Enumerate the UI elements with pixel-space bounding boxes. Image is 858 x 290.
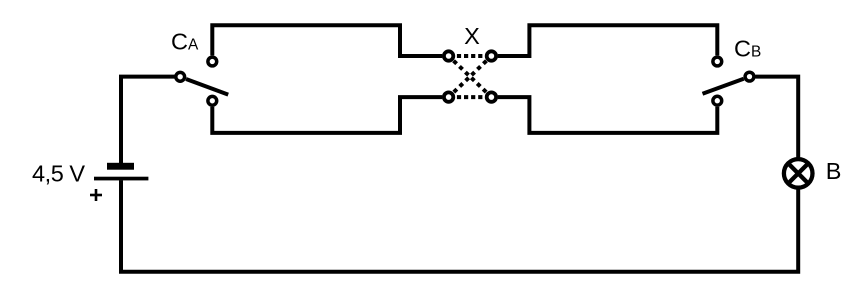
dashed link: crossover bottom horizontal xyxy=(449,95,492,99)
dashed link: crossover diagonal top-right to bottom-left xyxy=(449,56,492,97)
crossover terminal bottom-left xyxy=(444,92,453,101)
lamp B ring xyxy=(784,159,813,188)
switch CB common terminal xyxy=(745,72,754,81)
crossover terminal top-left xyxy=(444,51,453,60)
switch CB top contact xyxy=(713,57,722,66)
svg-text:B: B xyxy=(826,158,842,184)
dashed link: crossover top horizontal xyxy=(449,54,492,58)
dashed link: crossover diagonal top-left to bottom-right xyxy=(449,56,492,97)
wire: crossover bottom-right down, across, up to CB bottom contact xyxy=(498,97,718,133)
lamp B cross stroke 1 xyxy=(789,164,807,182)
switch CA common terminal xyxy=(176,72,185,81)
svg-text:4,5 V: 4,5 V xyxy=(32,161,85,187)
lamp B cross stroke 2 xyxy=(789,164,807,182)
battery BT1 positive plate (long thin bar) xyxy=(94,177,148,181)
crossover terminal top-right xyxy=(487,51,496,60)
crossover terminal bottom-right xyxy=(487,92,496,101)
svg-text:X: X xyxy=(464,23,480,49)
wire: CA top contact up, across top rail, down to crossover top-left xyxy=(212,25,442,56)
switch CA lever xyxy=(186,79,228,95)
battery plus polarity marker xyxy=(90,189,102,201)
switch CB lever xyxy=(703,79,744,94)
battery BT1 negative plate (short thick bar) xyxy=(107,163,134,170)
wire: lamp B up and left to switch CB common xyxy=(756,77,799,159)
switch CB bottom contact xyxy=(713,96,722,105)
switch CA bottom contact xyxy=(208,96,217,105)
wire: crossover top-right up, across top rail, down to CB top contact xyxy=(498,25,718,56)
wire: battery negative up to switch CA common xyxy=(121,77,175,164)
switch CA top contact xyxy=(208,57,217,66)
wire: battery positive along bottom rail up to lamp B xyxy=(121,180,798,272)
wire: CA bottom contact down, across, up to crossover bottom-left xyxy=(212,97,442,133)
